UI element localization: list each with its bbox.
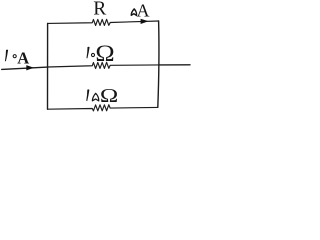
label 15Ω: Persian digit 5 <box>92 93 98 101</box>
svg-text:A: A <box>137 1 150 21</box>
label 10A: Persian digit 0 (ring) <box>13 55 16 58</box>
svg-text:Ω: Ω <box>100 84 118 107</box>
wire: left vertical side <box>47 23 49 109</box>
wire: bottom branch with 15Ω resistor <box>48 105 158 111</box>
wire: right vertical side <box>158 21 159 107</box>
arrowhead: 5A branch current direction <box>141 19 149 24</box>
label 10A: Persian digit 1 (tapered wedge) <box>5 50 8 62</box>
label 10Ω: Persian digit 0 (ring) <box>91 53 94 56</box>
svg-text:Ω: Ω <box>95 41 114 67</box>
wire: top branch with resistor R <box>48 19 159 25</box>
arrowhead: 10A input current direction <box>26 65 34 70</box>
wire: middle branch with 10Ω resistor <box>48 62 160 68</box>
wire: left input lead at 10A <box>2 67 48 69</box>
svg-text:A: A <box>17 48 29 67</box>
circuit schematic: 10A source feeding three parallel resistors R, 10Ω, 15Ω <box>0 0 192 115</box>
label 15Ω: Persian digit 1 (tapered wedge) <box>86 89 89 101</box>
label 5A: Persian digit 5 <box>131 9 136 16</box>
svg-text:R: R <box>93 0 106 20</box>
wire: right output lead <box>159 64 190 66</box>
label 10Ω: Persian digit 1 (tapered wedge) <box>87 47 90 59</box>
